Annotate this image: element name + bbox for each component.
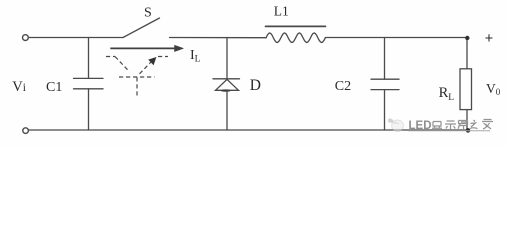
wire C2 upper lead [384, 38, 386, 80]
transistor Q1 base lead [136, 77, 138, 96]
transistor Q1 (dashed switch equivalent) [106, 57, 168, 97]
watermark hanzi xian [432, 122, 442, 129]
terminal bottom-left input [23, 128, 29, 134]
svg-text:+: + [485, 31, 493, 47]
inductor L1 coil [266, 33, 325, 43]
watermark hanzi ping [458, 121, 468, 130]
wire top rail right [325, 37, 467, 39]
wire top rail mid [170, 37, 267, 39]
transistor Q1 emitter lead dash [158, 56, 168, 58]
transistor Q1 collector lead dash [106, 56, 115, 58]
node bottom-right junction [466, 128, 471, 133]
wire diode upper lead [226, 38, 228, 79]
svg-text:Vi: Vi [12, 79, 26, 95]
capacitor C2 top plate [371, 78, 399, 80]
transistor Q1 emitter arrowhead [148, 57, 156, 65]
watermark hanzi jia [482, 120, 493, 130]
wire C1 upper lead [88, 38, 90, 79]
wire bottom rail [28, 129, 467, 131]
svg-text:C2: C2 [335, 79, 351, 94]
capacitor C1 bottom plate [74, 88, 104, 90]
svg-text:D: D [250, 77, 261, 94]
node top-right junction [465, 36, 469, 40]
svg-text:C1: C1 [46, 80, 62, 95]
capacitor C2 bottom plate [371, 89, 399, 91]
transistor Q1 collector stroke [115, 57, 130, 72]
wire diode lower lead [226, 90, 228, 130]
wire top rail left [29, 37, 123, 39]
inductor current arrow IL [110, 45, 183, 51]
transistor Q1 base bar [119, 76, 155, 78]
resistor RL box [460, 69, 472, 110]
watermark hanzi shi [445, 121, 456, 129]
diode D cathode bar [213, 78, 240, 80]
diode D triangle [216, 79, 239, 90]
switch S blade [123, 18, 160, 38]
transistor Q1 emitter stroke [140, 62, 152, 74]
wire RL upper lead [466, 38, 468, 70]
wire C2 lower lead [384, 90, 386, 130]
watermark hanzi zhi [470, 120, 478, 129]
capacitor C1 top plate [74, 77, 104, 79]
wire C1 lower lead [88, 89, 90, 130]
watermark logo icon [388, 118, 403, 131]
terminal top-left input [23, 35, 29, 41]
inductor L1 core bar [266, 25, 326, 27]
watermark underline [408, 130, 490, 132]
diode D anode junction smudge [221, 89, 231, 92]
svg-text:S: S [144, 6, 152, 21]
svg-text:L1: L1 [274, 4, 289, 19]
wire RL lower lead [466, 110, 468, 131]
